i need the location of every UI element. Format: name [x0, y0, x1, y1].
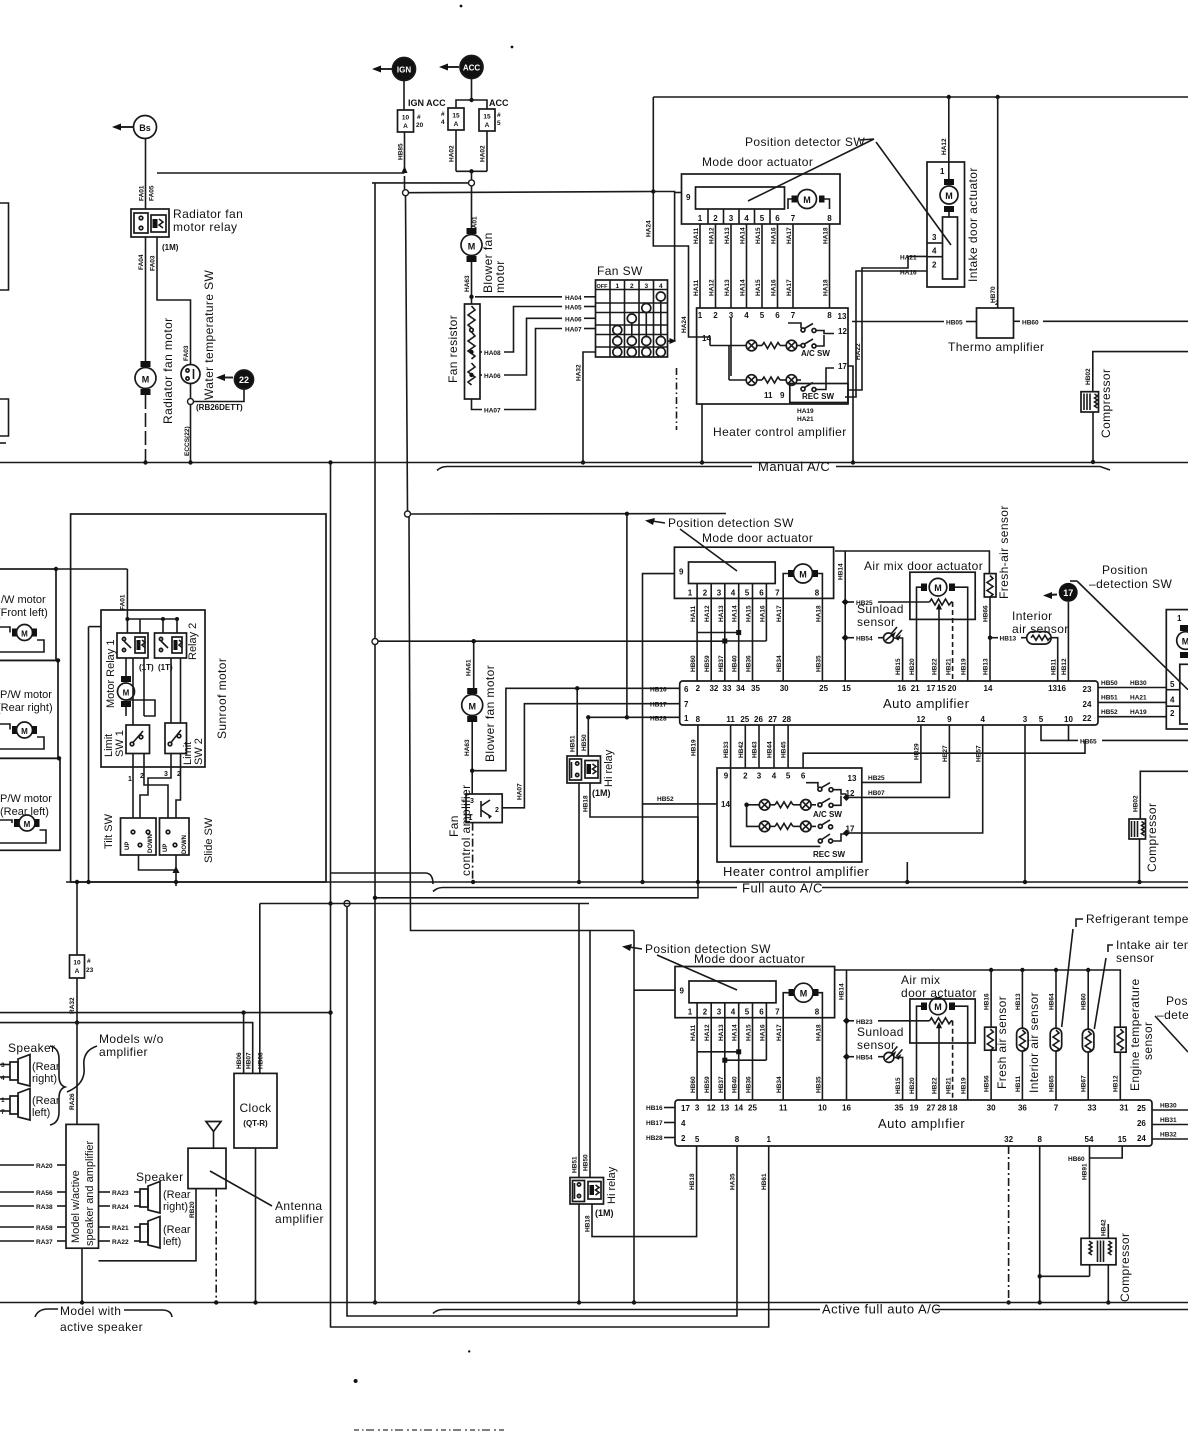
svg-text:Slide SW: Slide SW [203, 817, 215, 863]
svg-text:31: 31 [1120, 1104, 1129, 1113]
P/W motor (Rear right) box [0, 658, 60, 758]
clock box left rail [259, 904, 261, 1013]
svg-text:4: 4 [441, 119, 445, 126]
svg-text:HB15: HB15 [895, 1077, 902, 1094]
callout refrigerant temperature sensor [1062, 912, 1188, 1027]
svg-text:4: 4 [1170, 696, 1175, 705]
wires mode door to auto amp (active) [690, 1018, 822, 1100]
svg-text:HA11: HA11 [690, 1024, 697, 1041]
svg-text:M: M [800, 989, 808, 999]
svg-text:24: 24 [1137, 1134, 1146, 1143]
svg-text:HA17: HA17 [776, 1024, 783, 1041]
svg-text:Auto amplifier: Auto amplifier [883, 696, 970, 711]
bracket Full auto A/C [433, 881, 1188, 896]
heater control amplifier (manual) [697, 308, 848, 404]
svg-text:P/W motor: P/W motor [0, 793, 52, 805]
power source IGN [372, 58, 416, 81]
svg-text:35: 35 [895, 1104, 904, 1113]
svg-text:6: 6 [775, 311, 780, 320]
svg-text:1: 1 [698, 311, 703, 320]
dashed wire below arrow [676, 368, 678, 430]
svg-text:Active full auto A/C: Active full auto A/C [822, 1302, 941, 1317]
sunload sensor (active) [843, 1025, 904, 1100]
wire mode door 9 feed (active) [632, 931, 675, 1305]
svg-text:HB28: HB28 [650, 715, 667, 722]
svg-text:34: 34 [736, 684, 745, 693]
P/W motor (Rear left) box [0, 756, 61, 850]
svg-text:5: 5 [695, 1135, 700, 1144]
svg-text:HB66: HB66 [983, 605, 990, 622]
interior air sensor (active) [1015, 970, 1041, 1100]
svg-text:2: 2 [140, 773, 144, 780]
svg-text:HA63: HA63 [464, 739, 471, 756]
label models w/o amplifier [67, 1032, 164, 1092]
mode door motor M [788, 190, 830, 210]
Hi relay (active) [570, 904, 618, 1219]
svg-text:Interior air sensor: Interior air sensor [1027, 992, 1041, 1093]
svg-text:Antenna: Antenna [275, 1199, 323, 1213]
SEC-TR [0, 95, 1188, 474]
svg-text:HA07: HA07 [565, 327, 582, 334]
power source ACC [439, 56, 483, 79]
svg-text:5: 5 [786, 772, 791, 781]
svg-text:32: 32 [1004, 1135, 1013, 1144]
svg-text:Position detector SW: Position detector SW [745, 135, 865, 149]
svg-text:#: # [417, 114, 421, 121]
svg-text:HA16: HA16 [900, 270, 917, 277]
svg-text:Full auto A/C: Full auto A/C [742, 881, 823, 896]
svg-text:23: 23 [86, 967, 94, 974]
heater lamps and resistors row2 [729, 346, 801, 386]
svg-text:30: 30 [780, 684, 789, 693]
wire relay returns (active) [577, 1146, 768, 1305]
svg-text:Heater control amplifier: Heater control amplifier [723, 864, 870, 879]
radiator fan motor relay [131, 207, 243, 252]
svg-text:15: 15 [842, 684, 851, 693]
blower fan motor M [461, 228, 507, 293]
wire to mode door pin 9 [653, 192, 681, 342]
svg-text:10: 10 [818, 1104, 827, 1113]
refrigerant temperature sensor (active) [1048, 970, 1061, 1100]
svg-text:2: 2 [1170, 709, 1175, 718]
svg-text:2: 2 [630, 283, 634, 290]
wire to ECCS(22) ground [184, 405, 193, 465]
svg-text:Water temperature SW: Water temperature SW [202, 269, 216, 400]
svg-text:HB65: HB65 [1080, 739, 1097, 746]
svg-text:(Front left): (Front left) [0, 607, 48, 619]
speaker rear right (w/o amp) [0, 1055, 60, 1087]
svg-text:HA18: HA18 [823, 227, 830, 244]
svg-text:HB29: HB29 [914, 743, 921, 760]
wire HA61 blower feed (full auto) [466, 639, 476, 691]
svg-text:HB05: HB05 [946, 320, 963, 327]
svg-text:3: 3 [932, 233, 937, 242]
svg-text:7: 7 [684, 700, 689, 709]
svg-text:4: 4 [681, 1119, 686, 1128]
svg-text:7: 7 [775, 1008, 780, 1017]
radiator fan motor M [135, 317, 175, 424]
svg-text:2: 2 [713, 311, 718, 320]
svg-text:3: 3 [695, 1104, 700, 1113]
svg-text:Position detection SW: Position detection SW [668, 516, 794, 530]
wire HB60 pin15 (active) [1068, 1146, 1122, 1163]
svg-text:#: # [441, 111, 445, 118]
svg-text:HB18: HB18 [585, 1215, 592, 1232]
svg-text:HA17: HA17 [776, 605, 783, 622]
audio feed line y1022 [0, 1023, 253, 1074]
wire y903 clock top [260, 903, 589, 905]
svg-text:27: 27 [768, 715, 777, 724]
svg-text:M: M [21, 727, 28, 736]
svg-text:22: 22 [239, 375, 249, 385]
svg-text:(Rear: (Rear [32, 1095, 60, 1107]
model w/active speaker and amplifier box [66, 1124, 99, 1248]
svg-text:ECCS(22): ECCS(22) [184, 426, 191, 456]
svg-text:M: M [24, 820, 31, 829]
svg-text:3: 3 [1, 1062, 5, 1069]
air mix door actuator (active) [901, 973, 977, 1100]
svg-text:HA22: HA22 [855, 343, 862, 360]
svg-text:Air mix door actuator: Air mix door actuator [864, 559, 983, 573]
stray dot [468, 1350, 470, 1352]
audio feed line y1012 [0, 1010, 331, 1014]
svg-text:17: 17 [927, 684, 936, 693]
svg-text:FA03: FA03 [183, 345, 190, 361]
svg-text:HA15: HA15 [746, 605, 753, 622]
svg-text:Manual A/C: Manual A/C [758, 459, 830, 474]
svg-text:air sensor: air sensor [1012, 622, 1069, 636]
svg-text:Compressor: Compressor [1118, 1233, 1132, 1302]
svg-text:4: 4 [744, 214, 749, 223]
svg-text:9: 9 [947, 715, 952, 724]
SEC-LEFT [0, 183, 769, 1327]
svg-text:HB60: HB60 [690, 655, 697, 672]
svg-text:(1T): (1T) [139, 663, 154, 672]
svg-text:right): right) [163, 1201, 188, 1213]
svg-text:19: 19 [910, 1104, 919, 1113]
label position detection SW (middle) [645, 516, 794, 571]
svg-text:HA13: HA13 [718, 1024, 725, 1041]
svg-text:Mode door actuator: Mode door actuator [694, 952, 805, 966]
svg-text:IGN: IGN [397, 66, 411, 75]
svg-text:7: 7 [791, 214, 796, 223]
mode door motor M (full auto) [783, 564, 822, 598]
svg-text:M: M [799, 570, 807, 580]
svg-text:(QT-R): (QT-R) [243, 1119, 268, 1128]
svg-text:3: 3 [644, 283, 648, 290]
svg-text:#: # [87, 958, 91, 965]
P/W motor (Front left) box [0, 567, 58, 661]
sensor feed line y970 [835, 968, 1120, 1100]
compressor (full auto) [1129, 771, 1188, 884]
svg-text:Fan resistor: Fan resistor [446, 315, 460, 383]
svg-text:HA21: HA21 [797, 416, 814, 423]
svg-text:Hi relay: Hi relay [603, 749, 615, 787]
bottom dashed marks [354, 1429, 505, 1431]
svg-text:DOWN: DOWN [148, 834, 154, 853]
svg-text:HB12: HB12 [1061, 658, 1068, 675]
svg-text:A/C SW: A/C SW [813, 810, 842, 819]
slide SW [160, 817, 216, 863]
svg-text:Intake door actuator: Intake door actuator [966, 167, 980, 282]
svg-text:HA06: HA06 [565, 316, 582, 323]
svg-text:(Rear: (Rear [32, 1061, 60, 1073]
svg-text:HB34: HB34 [776, 1076, 783, 1093]
svg-text:M: M [945, 191, 953, 201]
svg-text:7: 7 [791, 311, 796, 320]
svg-text:27: 27 [927, 1104, 936, 1113]
svg-text:Heater control amplifier: Heater control amplifier [713, 425, 847, 439]
svg-text:Air mix: Air mix [901, 973, 940, 987]
svg-text:3: 3 [1023, 715, 1028, 724]
svg-text:Position: Position [1102, 563, 1148, 577]
svg-text:25: 25 [1137, 1104, 1146, 1113]
wire ACC branch node [456, 79, 487, 110]
wire model box to bus [80, 1248, 84, 1305]
bracket model with active speaker [35, 1304, 172, 1334]
svg-text:1: 1 [615, 283, 619, 290]
page reference circle 17 [1043, 583, 1078, 681]
wire heater pin6 loop [803, 740, 1085, 768]
wire HA32 from fan SW [576, 352, 596, 465]
svg-text:2: 2 [696, 684, 701, 693]
svg-text:7: 7 [1, 1109, 5, 1116]
wire HA06 tap [480, 316, 596, 380]
feed wire y569 [56, 568, 127, 570]
antenna amplifier box [188, 1148, 324, 1226]
svg-text:(1M): (1M) [592, 788, 611, 798]
svg-text:4: 4 [772, 772, 777, 781]
svg-text:HB42: HB42 [738, 741, 745, 758]
svg-text:HB15: HB15 [895, 658, 902, 675]
svg-text:–detection SW: –detection SW [1089, 577, 1173, 591]
bracket Manual A/C [437, 459, 1110, 474]
svg-text:5: 5 [745, 589, 750, 598]
svg-text:sensor: sensor [1116, 951, 1154, 965]
svg-text:15: 15 [452, 113, 460, 120]
svg-text:HB54: HB54 [856, 636, 873, 643]
sunroof outer box [71, 514, 326, 882]
svg-text:23: 23 [1083, 685, 1092, 694]
svg-text:HB45: HB45 [781, 741, 788, 758]
long vertical x408 IGN feed [405, 196, 635, 931]
fuse 10A no.23 [70, 880, 94, 978]
svg-text:4: 4 [731, 1008, 736, 1017]
svg-text:1: 1 [1177, 614, 1182, 623]
svg-text:HB44: HB44 [767, 741, 774, 758]
svg-text:HB35: HB35 [815, 1076, 822, 1093]
svg-text:SW 2: SW 2 [193, 738, 205, 765]
svg-text:M: M [468, 702, 476, 712]
left margin connector stub lower [0, 399, 9, 443]
wire HA08 tap [480, 305, 596, 358]
engine temperature sensor (active) [1113, 978, 1155, 1100]
svg-text:HA13: HA13 [724, 227, 731, 244]
svg-text:RA20: RA20 [36, 1163, 53, 1170]
svg-text:HA17: HA17 [786, 279, 793, 296]
wires mode door to auto amp (full auto) [690, 598, 822, 681]
wire RB20 antenna link [99, 1189, 197, 1261]
svg-text:HB11: HB11 [1015, 1075, 1022, 1092]
svg-text:6: 6 [759, 589, 764, 598]
svg-text:10: 10 [1064, 715, 1073, 724]
wire HB28 line [586, 715, 680, 722]
svg-text:A: A [403, 123, 408, 130]
wire HA63 motor to resistor [464, 262, 474, 304]
svg-text:4: 4 [744, 311, 749, 320]
speaker rear left (w/o amp) [0, 1089, 60, 1121]
sunroof motor M [118, 658, 230, 739]
A/C SW [788, 323, 834, 358]
svg-text:15: 15 [483, 114, 491, 121]
svg-text:Fresh air sensor: Fresh air sensor [995, 996, 1009, 1089]
svg-text:HB31: HB31 [1160, 1117, 1177, 1124]
svg-text:HB51: HB51 [570, 735, 577, 752]
svg-text:Relay 2: Relay 2 [187, 623, 199, 660]
svg-text:20: 20 [416, 122, 424, 129]
svg-text:HA24: HA24 [646, 220, 653, 237]
svg-text:13: 13 [720, 1104, 729, 1113]
svg-text:HA35: HA35 [730, 1173, 737, 1190]
svg-text:14: 14 [734, 1104, 743, 1113]
svg-text:HA06: HA06 [484, 373, 501, 380]
wire HB18 relay return [373, 783, 698, 900]
svg-text:2: 2 [995, 300, 999, 307]
svg-text:18: 18 [949, 1104, 958, 1113]
svg-text:11: 11 [764, 391, 773, 400]
wires HA11-HA18 mode door to heater amp [693, 224, 830, 308]
svg-text:36: 36 [1018, 1104, 1027, 1113]
svg-text:2: 2 [743, 772, 748, 781]
svg-text:20: 20 [948, 684, 957, 693]
svg-text:2: 2 [713, 214, 718, 223]
svg-text:HB13: HB13 [1015, 993, 1022, 1010]
svg-text:1: 1 [128, 776, 132, 783]
svg-text:HB07: HB07 [868, 790, 885, 797]
svg-text:Bs: Bs [139, 123, 151, 133]
svg-text:HA12: HA12 [709, 227, 716, 244]
wire SW to junction [188, 384, 194, 405]
svg-text:RA32: RA32 [69, 997, 76, 1014]
long vertical x347 [344, 901, 737, 1317]
svg-text:HB33: HB33 [723, 741, 730, 758]
svg-text:Interior: Interior [1012, 609, 1053, 623]
svg-text:4: 4 [980, 715, 985, 724]
svg-text:HB52: HB52 [1101, 709, 1118, 716]
svg-text:HA07: HA07 [517, 783, 524, 800]
svg-text:RB20: RB20 [189, 1201, 196, 1218]
relay feed bus [125, 617, 179, 633]
svg-text:Compressor: Compressor [1145, 803, 1159, 872]
svg-text:4: 4 [731, 589, 736, 598]
svg-text:Motor Relay 1: Motor Relay 1 [105, 640, 117, 708]
svg-text:(1M): (1M) [595, 1208, 614, 1218]
svg-text:DOWN: DOWN [182, 835, 188, 854]
air mix wiper arrow [932, 602, 953, 681]
svg-text:HA61: HA61 [466, 659, 473, 676]
wire relay contact ground [577, 783, 581, 884]
wire HB23 resistor line (active) [843, 1017, 953, 1100]
speaker rear right (active) [99, 1182, 191, 1214]
svg-text:REC SW: REC SW [813, 850, 845, 859]
svg-text:M: M [468, 242, 476, 252]
svg-text:25: 25 [748, 1104, 757, 1113]
svg-text:HB43: HB43 [752, 741, 759, 758]
svg-text:HA15: HA15 [746, 1024, 753, 1041]
stray speck [460, 5, 463, 8]
svg-text:17: 17 [1063, 588, 1073, 598]
svg-text:RA58: RA58 [36, 1225, 53, 1232]
svg-text:HB30: HB30 [1160, 1102, 1177, 1109]
svg-text:HB64: HB64 [1048, 993, 1055, 1010]
svg-text:24: 24 [1083, 700, 1092, 709]
clock [234, 1073, 277, 1304]
svg-text:HB28: HB28 [646, 1135, 663, 1142]
label position detection SW (right) [1070, 563, 1188, 690]
svg-text:26: 26 [1137, 1119, 1146, 1128]
svg-text:7: 7 [775, 589, 780, 598]
svg-text:HA18: HA18 [815, 605, 822, 622]
svg-text:control amplifier: control amplifier [459, 785, 473, 877]
svg-text:HB54: HB54 [856, 1055, 873, 1062]
wires HB06 HB07 HB08 to clock [236, 1013, 265, 1074]
svg-text:3: 3 [717, 1008, 722, 1017]
fresh air sensor (active) [984, 970, 1010, 1100]
svg-text:HA11: HA11 [690, 605, 697, 622]
svg-text:OFF: OFF [597, 284, 609, 290]
svg-text:HB61: HB61 [761, 1173, 768, 1190]
svg-text:9: 9 [724, 772, 729, 781]
svg-text:HA12: HA12 [704, 1024, 711, 1041]
ground bus manual section [0, 462, 1188, 464]
compressor (manual) [1081, 352, 1188, 465]
svg-text:HB17: HB17 [650, 702, 667, 709]
svg-text:8: 8 [827, 311, 832, 320]
svg-text:UP: UP [163, 844, 169, 852]
svg-text:8: 8 [815, 1008, 820, 1017]
svg-text:/W motor: /W motor [1, 594, 46, 606]
svg-text:RA38: RA38 [36, 1204, 53, 1211]
stray speck [511, 46, 514, 49]
svg-text:HA11: HA11 [693, 279, 700, 296]
svg-text:2: 2 [681, 1134, 686, 1143]
fuse 10A no.20 [398, 81, 424, 133]
svg-text:HB32: HB32 [1160, 1131, 1177, 1138]
wire y514 to amp feeds [411, 512, 727, 516]
speaker rear left (active) [99, 1217, 191, 1249]
wire heater left down to bus [700, 404, 704, 465]
wire fan SW to HA24 line arrow [668, 338, 677, 344]
air mix door actuator (full auto) [864, 559, 983, 681]
svg-text:2: 2 [495, 807, 499, 814]
svg-text:Clock: Clock [239, 1101, 272, 1115]
svg-text:HB85: HB85 [398, 143, 405, 160]
svg-text:Compressor: Compressor [1099, 369, 1113, 438]
callout intake air temperature sensor [1094, 938, 1188, 1029]
svg-text:HB50: HB50 [1101, 680, 1118, 687]
svg-text:9: 9 [680, 987, 685, 996]
svg-text:HB60: HB60 [1068, 1156, 1085, 1163]
svg-text:Mode door actuator: Mode door actuator [702, 155, 813, 169]
svg-text:HB07: HB07 [246, 1052, 253, 1069]
svg-text:HB19: HB19 [691, 739, 698, 756]
svg-text:26: 26 [754, 715, 763, 724]
svg-text:Speaker: Speaker [8, 1041, 56, 1055]
svg-text:HB30: HB30 [1130, 680, 1147, 687]
svg-text:HA16: HA16 [759, 605, 766, 622]
svg-text:6: 6 [684, 685, 689, 694]
blower fan motor M (full auto) [462, 665, 497, 762]
